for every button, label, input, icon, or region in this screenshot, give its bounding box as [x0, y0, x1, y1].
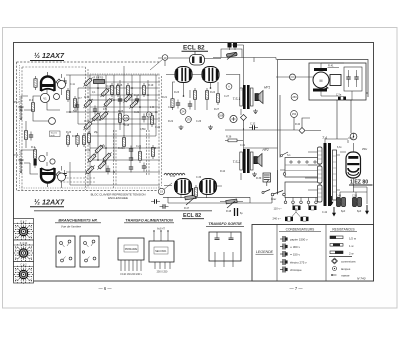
svg-text:R.7: R.7: [78, 97, 82, 100]
legend capacitor row papier 1500v: [280, 236, 308, 242]
toggle contact top of selector: [281, 152, 289, 157]
junction dots: [69, 87, 211, 173]
svg-text:R.26: R.26: [66, 131, 72, 134]
HP socket view 2: [80, 236, 99, 267]
junction diamond bottom channel: [56, 172, 62, 178]
legend symbol connexions: [332, 258, 357, 264]
hum resistor R36: [225, 136, 243, 142]
wires selector to terminals: [278, 162, 322, 201]
output transformer drawing: [209, 232, 241, 267]
plate resistor R16: [126, 83, 129, 97]
svg-text:R.39: R.39: [256, 177, 262, 180]
output tube ECL82 no3: [175, 179, 192, 195]
svg-text:R.23: R.23: [174, 91, 180, 94]
T4 secondary taps: [305, 139, 348, 190]
svg-text:C.31: C.31: [240, 144, 246, 147]
clavier caption frame: [50, 131, 61, 137]
filter capacitor C50: [352, 195, 362, 207]
svg-text:R.19: R.19: [148, 84, 154, 87]
legend resistor 1/2w: [330, 236, 357, 241]
aux switch contact: [262, 190, 270, 194]
svg-text:170: 170: [186, 118, 191, 122]
svg-text:arrêt: arrêt: [51, 134, 56, 137]
svg-text:N°740: N°740: [357, 277, 366, 281]
svg-text:C.36: C.36: [196, 176, 202, 179]
legend capacitor row 150v: [280, 251, 300, 257]
svg-text:HP2: HP2: [263, 148, 269, 152]
wire feedback verticals: [278, 60, 311, 194]
legend capacitor row chimique: [280, 267, 302, 273]
grid resistor R2: [33, 147, 36, 161]
svg-text:R.24: R.24: [210, 91, 216, 94]
svg-text:P.U.: P.U.: [14, 153, 20, 157]
bias resistor R3 horizontal: [94, 76, 105, 83]
bias resistor R33: [76, 133, 79, 147]
svg-text:masse: masse: [341, 273, 350, 277]
input transformer TR2 (bottom channel): [40, 168, 56, 187]
mains switch Inter: [271, 191, 285, 201]
ground under tubes: [179, 125, 184, 130]
svg-text:BRANCHEMENTS HP.: BRANCHEMENTS HP.: [58, 219, 97, 223]
coupling capacitor C5: [93, 106, 97, 115]
right side micro labels: [287, 123, 368, 214]
anode resistor R6: [82, 76, 93, 87]
extra mesh wires: [90, 82, 160, 119]
tube circle V1b: [54, 94, 60, 100]
reference circle 250: [291, 94, 298, 101]
divider resistor R19: [87, 131, 90, 145]
coupling capacitor C4: [75, 102, 79, 111]
arrow HT down: [330, 196, 334, 206]
label 1/2 12AX7 top: [30, 51, 65, 61]
svg-text:168: 168: [219, 114, 224, 118]
svg-text:LEGENDE: LEGENDE: [256, 250, 274, 254]
svg-text:R.48: R.48: [226, 210, 232, 213]
motor supply box: [309, 63, 366, 100]
wire motor box internal: [309, 63, 357, 100]
tube circle V2b: [50, 159, 55, 164]
svg-text:— 6 —: — 6 —: [98, 286, 112, 291]
svg-text:½ 12AX7: ½ 12AX7: [34, 198, 65, 207]
divider resistor R18: [66, 133, 69, 147]
B plus rail wire: [225, 121, 321, 204]
decoupling capacitor C7: [129, 155, 133, 164]
tone capacitor C8: [135, 96, 139, 105]
switch selector box upper: [285, 158, 320, 178]
svg-text:V1: V1: [43, 97, 47, 101]
bypass capacitor C3: [29, 132, 33, 141]
svg-text:250: 250: [292, 95, 297, 99]
output tube ECL82 no1: [175, 67, 192, 83]
speaker HP1: [255, 86, 270, 104]
legend header CONDENSATEURS: [279, 228, 321, 232]
grid choke winding: [164, 173, 185, 175]
legend symbol lampes: [333, 267, 351, 271]
svg-text:électro 275 v: électro 275 v: [290, 261, 307, 265]
svg-text:1 M: 1 M: [150, 106, 154, 109]
legend capacitor row electro 275v: [280, 259, 307, 265]
power transformer drawing 2: [149, 228, 174, 274]
svg-text:PRIMAIRE: PRIMAIRE: [125, 247, 138, 251]
wire PU bottom to grid: [21, 150, 38, 174]
B plus terminal circle: [230, 115, 237, 122]
svg-text:R.12: R.12: [84, 96, 90, 99]
cathode stack between lower tubes: [193, 185, 198, 199]
extra diagonal resistor Rc: [128, 98, 139, 109]
svg-text:R.33: R.33: [72, 136, 78, 138]
bloc clavier dashed outline: [22, 67, 162, 190]
section divider line: [34, 210, 212, 212]
wire top rail: [158, 58, 190, 66]
schematic frame border: [14, 43, 374, 282]
svg-text:6v3 HT: 6v3 HT: [157, 228, 165, 231]
bypass capacitor C26: [129, 146, 133, 155]
grid resistor R27: [216, 91, 219, 105]
svg-text:C.26: C.26: [196, 120, 202, 123]
mains dropper rheostat: [226, 52, 237, 59]
contact dots selector: [283, 161, 316, 175]
bottom rail wire: [163, 197, 250, 203]
svg-text:T.S.2: T.S.2: [233, 160, 241, 164]
junction diamond TS1: [241, 115, 247, 121]
plate resistor R17: [142, 83, 145, 97]
coupling capacitor C27: [142, 163, 146, 172]
svg-text:T.S.1: T.S.1: [233, 97, 241, 101]
power section outer box: [277, 60, 369, 98]
anode resistor R7: [99, 87, 110, 98]
svg-text:110 v∼: 110 v∼: [274, 207, 283, 211]
plate resistor R14: [110, 83, 113, 97]
wire tube connections: [164, 75, 222, 199]
label 1 EZ 80: [349, 180, 373, 186]
plate resistor R31: [138, 149, 141, 163]
tone pot P3: [184, 195, 196, 210]
screen resistor R25: [193, 88, 196, 102]
svg-text:M: M: [320, 79, 323, 83]
svg-text:C.24: C.24: [136, 145, 142, 148]
hum balance pot: [256, 173, 271, 186]
junction diamond B plus: [299, 128, 305, 134]
coupling capacitor C1: [62, 78, 66, 87]
junction diamond top channel: [56, 79, 62, 85]
decoupling capacitor C38: [235, 208, 244, 216]
svg-text:•• 150 v: •• 150 v: [290, 253, 300, 257]
svg-text:47K: 47K: [103, 108, 108, 111]
terminal row circles: [284, 201, 317, 204]
svg-text:C.18: C.18: [96, 119, 102, 122]
grid resistor R10: [98, 110, 109, 121]
label R41: [328, 64, 340, 68]
grid resistor R1: [31, 100, 34, 114]
svg-text:C.50: C.50: [352, 195, 358, 198]
svg-text:R.35: R.35: [151, 147, 157, 150]
svg-text:R.31: R.31: [85, 149, 91, 152]
spark capacitor C41: [354, 74, 358, 83]
ground under cathode: [208, 125, 213, 130]
svg-text:lampes: lampes: [341, 267, 351, 271]
screen choke capsule top: [190, 55, 205, 66]
speaker HP2: [254, 148, 269, 167]
svg-text:0,5M: 0,5M: [140, 128, 145, 131]
divider resistor R29: [93, 143, 104, 154]
svg-text:250 0 250: 250 0 250: [157, 271, 168, 274]
svg-text:R.15: R.15: [118, 110, 124, 113]
svg-text:C.22: C.22: [100, 145, 106, 148]
wire grid center: [66, 66, 160, 185]
spark capacitor C40: [346, 74, 350, 83]
svg-text:R.41: R.41: [328, 64, 334, 68]
legend header RESISTANCES: [330, 228, 357, 232]
svg-text:— 7 —: — 7 —: [289, 286, 303, 291]
wire B plus top: [205, 49, 277, 62]
ornament strip block 1: [14, 219, 34, 241]
svg-text:1/2 w: 1/2 w: [349, 237, 357, 241]
label bloc resistor R23: [84, 164, 95, 175]
brush bar bottom: [313, 89, 327, 92]
label circle a: [226, 84, 232, 90]
svg-text:TRANSFO SORTIE: TRANSFO SORTIE: [208, 222, 242, 226]
label bloc capacitor C22: [106, 166, 110, 175]
svg-text:ENCLENCHEE: ENCLENCHEE: [108, 196, 128, 200]
wire mesh left stage: [26, 74, 62, 188]
pilot lamp: [350, 133, 357, 140]
legend capacitor row 300v: [280, 244, 300, 250]
svg-text:R.47: R.47: [184, 207, 190, 210]
svg-text:R.2: R.2: [31, 145, 36, 149]
label circle c: [186, 117, 192, 123]
input transformer TR1 (top channel): [40, 72, 56, 91]
tube circle V2a: [39, 155, 45, 161]
bypass capacitor C25: [129, 164, 133, 173]
label ECL 82 top: [182, 45, 209, 55]
svg-text:R.18: R.18: [124, 124, 130, 127]
reference circle 150: [291, 111, 298, 118]
divider resistor R28: [101, 151, 112, 162]
label circle e: [158, 183, 172, 195]
tone pot P4: [220, 199, 243, 213]
extra diagonal resistor Rb: [122, 92, 133, 103]
volume pot circle P1: [49, 118, 56, 125]
filter resistor pair top right: [228, 43, 238, 50]
reference circle 19: [150, 55, 168, 70]
grid resistor R32: [151, 145, 154, 159]
screen resistor R26: [205, 88, 208, 102]
title TRANSFO ALIMENTATION: [124, 219, 174, 223]
capacitor sub box: [344, 67, 362, 91]
svg-text:½ 12AX7: ½ 12AX7: [34, 51, 65, 60]
output tube ECL82 no2: [202, 67, 219, 83]
decoupling capacitor C6: [118, 96, 122, 105]
svg-text:R.27: R.27: [214, 108, 220, 111]
svg-text:Inter: Inter: [271, 197, 276, 201]
legend box: [252, 225, 374, 282]
svg-text:connexions: connexions: [341, 259, 356, 263]
svg-text:250v: 250v: [362, 148, 368, 151]
plate resistor R15: [118, 111, 121, 125]
coupling capacitor C2: [62, 170, 66, 179]
svg-text:CONDENSATEURS: CONDENSATEURS: [286, 228, 315, 232]
svg-text:R.21: R.21: [162, 96, 168, 99]
svg-text:R.44: R.44: [220, 170, 226, 173]
svg-text:ECL 82: ECL 82: [183, 213, 201, 219]
svg-text:chimique: chimique: [290, 268, 302, 272]
power transformer T4: [318, 136, 337, 206]
HT capacitor C32: [249, 123, 258, 130]
cathode resistor R4: [66, 88, 69, 102]
svg-text:C.16: C.16: [84, 120, 90, 123]
legend separator: [329, 256, 352, 258]
series resistor R0: [34, 76, 37, 90]
svg-text:C.11: C.11: [70, 83, 76, 86]
svg-text:P.U.: P.U.: [14, 100, 20, 104]
ground speaker2: [252, 172, 257, 177]
tone capacitor C9: [142, 114, 146, 123]
svg-text:papier 1500 v: papier 1500 v: [290, 238, 308, 242]
micro labels cluster: [66, 83, 246, 179]
svg-text:C.14: C.14: [134, 94, 140, 97]
grid capacitor C24: [188, 101, 192, 110]
svg-text:C.49: C.49: [336, 195, 342, 198]
svg-text:25µ: 25µ: [94, 131, 99, 134]
svg-text:C.42: C.42: [322, 211, 328, 214]
arrow ground left: [332, 207, 336, 217]
output transformer TS1: [233, 85, 254, 109]
reference circle 170: [123, 115, 129, 121]
legend title LEGENDE: [256, 250, 274, 254]
output tube ECL82 no4: [200, 179, 217, 195]
svg-text:6,3v: 6,3v: [337, 146, 342, 149]
cathode resistor R24: [171, 96, 174, 110]
grid resistor R9: [102, 97, 113, 108]
wire PU top to grid: [21, 96, 49, 121]
HP socket view 1: [56, 236, 75, 267]
rectifier EZ80: [346, 152, 361, 178]
motor M1: [313, 72, 329, 89]
output transformer TS2: [233, 149, 254, 173]
svg-text:C.32: C.32: [250, 123, 256, 126]
extra diagonal resistor Ra: [90, 111, 101, 122]
svg-text:C.27: C.27: [224, 95, 230, 98]
PU input jack bottom: [14, 153, 24, 173]
coupling capacitor C33: [151, 199, 160, 203]
power transformer drawing 1: [118, 238, 144, 276]
coupling capacitor C34: [160, 204, 169, 208]
note bloc clavier: [91, 193, 146, 201]
svg-text:TRANSFO ALIMENTATION: TRANSFO ALIMENTATION: [125, 219, 173, 223]
divider resistor R20: [122, 135, 125, 149]
tube circle V1a: [40, 93, 49, 102]
svg-text:SECOND.: SECOND.: [155, 249, 167, 253]
svg-text:RESISTANCES: RESISTANCES: [332, 228, 354, 232]
grid resistor R8: [82, 98, 93, 109]
svg-text:Vue de l'arrière: Vue de l'arrière: [61, 225, 82, 229]
suppressor resistor R41 body: [330, 75, 341, 86]
label ECL 82 bottom: [182, 213, 204, 219]
svg-text:170: 170: [124, 117, 129, 120]
svg-text:ECL 82: ECL 82: [183, 45, 205, 52]
legend symbol masse: [331, 273, 350, 277]
input terminal block lower: [34, 159, 37, 166]
plate resistor R30: [116, 83, 119, 97]
wire mains feed: [276, 77, 351, 139]
wire TS1 primary: [226, 45, 244, 180]
svg-text:R.33: R.33: [118, 147, 124, 150]
svg-text:240 v∼: 240 v∼: [273, 217, 283, 221]
legend resistor 1w: [330, 244, 354, 249]
divider resistor R21: [150, 113, 153, 127]
label 1/2 12AX7 bottom: [30, 198, 65, 207]
cathode capacitor C23: [176, 100, 180, 109]
svg-text:8µF: 8µF: [341, 210, 346, 213]
svg-text:R.13: R.13: [106, 85, 112, 88]
arrow ground right: [365, 205, 369, 215]
cathode resistor R3: [24, 128, 27, 142]
svg-text:150: 150: [292, 112, 297, 116]
bias resistor R34: [82, 133, 85, 147]
title TRANSFO SORTIE: [206, 222, 244, 226]
anode resistor R5: [73, 96, 76, 110]
reference circle 96: [146, 112, 151, 117]
ornament strip block 3: [14, 262, 34, 284]
svg-text:0 110 130 220 240 v: 0 110 130 220 240 v: [120, 273, 142, 276]
brush bar top: [314, 68, 327, 71]
ground speaker1: [253, 109, 258, 114]
tube circle V3: [58, 81, 66, 89]
svg-text:R.9 4700: R.9 4700: [94, 76, 104, 79]
ornament strip block 2: [14, 240, 34, 262]
grid resistor R11: [82, 120, 93, 131]
chassis dashed outline left channel: [17, 62, 162, 191]
svg-text:R.40: R.40: [295, 123, 301, 126]
label C5a fuse: [336, 94, 346, 100]
fuse 240v row: [273, 208, 309, 221]
svg-text:8µF: 8µF: [357, 210, 362, 213]
fuse 110v row: [274, 204, 317, 211]
fuse circle F1: [290, 74, 296, 80]
filter capacitor C49: [336, 195, 346, 207]
svg-text:50K: 50K: [73, 110, 78, 113]
title BRANCHEMENTS HP: [55, 219, 101, 229]
divider resistor R13: [96, 159, 107, 170]
wire EZ80 connections: [340, 133, 367, 204]
svg-text:•• 300 v: •• 300 v: [290, 245, 300, 249]
switch selector box lower: [285, 182, 320, 198]
PU input jack top: [14, 100, 24, 120]
svg-text:R.36: R.36: [226, 136, 232, 139]
label circle b: [180, 109, 186, 115]
svg-text:C.21: C.21: [134, 111, 140, 114]
svg-text:C.20: C.20: [155, 126, 161, 129]
svg-text:HP1: HP1: [264, 86, 270, 90]
legend resistor 2w: [330, 251, 354, 256]
svg-text:R.22: R.22: [168, 120, 174, 123]
svg-text:T.4: T.4: [322, 136, 327, 140]
divider resistor R12: [86, 152, 97, 163]
label circle d: [218, 113, 224, 119]
tube circle V4: [58, 173, 66, 181]
